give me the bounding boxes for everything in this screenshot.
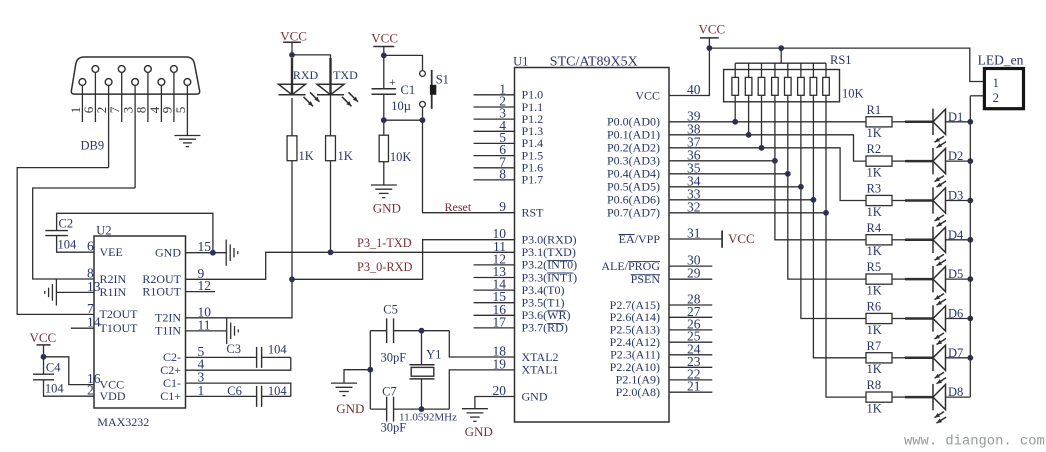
U1 pin 2 (P1.1) <box>474 94 544 114</box>
U2 pin 8 (R2IN) <box>87 266 127 286</box>
U1 pin 29 (PSEN) <box>631 266 713 286</box>
svg-text:GND: GND <box>336 401 364 416</box>
svg-text:6: 6 <box>81 106 96 113</box>
svg-text:C1-: C1- <box>163 376 181 390</box>
junction RS1/P0.4 <box>785 171 791 177</box>
svg-text:P0.0(AD0): P0.0(AD0) <box>607 115 660 129</box>
U1 pin 22 (P2.1(A9)) <box>616 366 713 386</box>
junction VCC rail at RS1 <box>778 45 784 51</box>
U1 pin 1 (P1.0) <box>474 81 544 101</box>
svg-text:17: 17 <box>493 314 507 329</box>
wire D2 to rail <box>946 160 971 162</box>
svg-text:P3_1-TXD: P3_1-TXD <box>357 236 412 250</box>
LED D3 <box>933 187 963 226</box>
wire R8 to D8 <box>892 396 905 398</box>
junction rail D2 <box>967 158 973 164</box>
wire net P3_0-RXD to U1 P3.0 <box>292 240 515 280</box>
svg-text:104: 104 <box>45 381 65 395</box>
wire RS1 lead 3 to P0.2 <box>761 95 763 148</box>
svg-text:PSEN: PSEN <box>631 272 661 286</box>
junction RS1/P0.3 <box>772 158 778 164</box>
svg-text:R6: R6 <box>867 300 882 314</box>
svg-text:P0.7(AD7): P0.7(AD7) <box>607 206 660 220</box>
wire R5 to D5 <box>892 278 905 280</box>
wire crystal left leg <box>369 331 371 409</box>
svg-text:31: 31 <box>687 226 701 241</box>
svg-text:1K: 1K <box>867 244 882 258</box>
switch S1 <box>384 55 449 120</box>
wire to U1 XTAL1 <box>449 370 514 409</box>
svg-text:S1: S1 <box>436 72 449 86</box>
U2 pin 15 (GND) <box>155 239 211 259</box>
svg-text:R7: R7 <box>867 339 882 353</box>
svg-text:VCC: VCC <box>280 28 307 43</box>
junction rail D4 <box>967 237 973 243</box>
wire D1 to rail <box>946 121 971 123</box>
svg-text:C6: C6 <box>227 384 242 398</box>
svg-text:C7: C7 <box>382 385 397 399</box>
junction RXD on P3_0-RXD <box>289 276 295 282</box>
svg-text:VDD: VDD <box>100 389 126 403</box>
wire R6 to D6 <box>892 318 905 320</box>
svg-text:Reset: Reset <box>445 200 472 214</box>
capacitor C2 <box>45 217 77 252</box>
svg-text:R4: R4 <box>867 221 882 235</box>
wire RS1 lead 7 to P0.6 <box>813 95 866 358</box>
U1 pin 4 (P1.3) <box>474 118 544 138</box>
power VCC at indicator LEDs <box>280 28 307 55</box>
svg-text:XTAL2: XTAL2 <box>522 350 559 364</box>
U1 pin 9 (RST) <box>499 199 544 219</box>
U2 pin 12 (R1OUT) <box>142 278 215 298</box>
U2 pin 13 (R1IN) <box>87 279 127 299</box>
wire U1 EA/VPP to VCC <box>669 230 755 247</box>
svg-text:MAX3232: MAX3232 <box>97 415 149 429</box>
U1 pin 7 (P1.6) <box>474 154 544 174</box>
wire D4 to rail <box>946 239 971 241</box>
svg-text:104: 104 <box>268 384 288 398</box>
U1 pin 20 (GND) <box>493 383 548 403</box>
DB9 pin 5 <box>173 79 191 136</box>
junction RS1/P0.0 <box>732 119 738 125</box>
svg-text:6: 6 <box>87 239 94 254</box>
DB9 pin 3 <box>121 79 139 188</box>
U1 pin 24 (P2.3(A11)) <box>610 341 712 361</box>
wire RS1 lead 6 to P0.5 <box>801 95 866 318</box>
junction rail D1 <box>967 119 973 125</box>
U1 pin 13 (P3.3(INT1)) <box>474 264 578 284</box>
LED D7 <box>933 345 963 384</box>
svg-text:Y1: Y1 <box>426 347 441 361</box>
wire R1 to D1 <box>892 121 905 123</box>
wire crystal top <box>370 330 386 332</box>
connector DB9 body <box>71 57 199 94</box>
svg-text:GND: GND <box>465 424 493 439</box>
wire U1 P0.3 to RS1 lead <box>669 160 775 162</box>
svg-text:8: 8 <box>499 166 506 181</box>
wire RS1 lead 2 to P0.1 <box>748 95 750 135</box>
U1 pin 39 (P0.0(AD0)) <box>607 108 701 128</box>
svg-text:+: + <box>389 75 396 89</box>
svg-text:C3: C3 <box>226 342 241 356</box>
U2 pin 11 (T1IN) <box>155 317 211 337</box>
U1 pin 8 (P1.7) <box>474 166 544 186</box>
wire Reset to U1 RST <box>423 120 515 213</box>
svg-text:1K: 1K <box>867 205 882 219</box>
wire C2 top to U2 GND pin 15 <box>57 213 213 252</box>
svg-text:10µ: 10µ <box>391 99 411 113</box>
svg-text:VCC: VCC <box>30 330 57 345</box>
wire RS1 lead 1 to P0.0 <box>734 95 736 122</box>
resistor R-TXD 1K <box>326 136 353 163</box>
wire C2 bottom to U2 VEE <box>57 236 94 253</box>
svg-text:29: 29 <box>687 266 701 281</box>
svg-text:GND: GND <box>522 389 548 403</box>
wire U1 VCC pin 40 riser <box>669 48 709 95</box>
LED D1 <box>933 109 963 148</box>
resistor R6 1K <box>866 300 892 337</box>
junction crystal bottom <box>419 406 425 412</box>
ground at U2 T1IN <box>186 318 239 344</box>
U1 pin 5 (P1.4) <box>474 130 544 150</box>
wire R3 to D3 <box>892 200 905 202</box>
wire U1 P0.2 to R3 <box>669 148 866 201</box>
junction rail D6 <box>967 316 973 322</box>
resistor R-reset 10K <box>379 120 411 164</box>
svg-text:1K: 1K <box>867 284 882 298</box>
wire D5 to rail <box>946 278 971 280</box>
DB9 pin 2 <box>94 79 112 168</box>
junction C1 bottom <box>381 117 387 123</box>
svg-text:9: 9 <box>159 107 174 114</box>
U2 pin 16 (VCC) <box>87 371 124 391</box>
svg-text:1K: 1K <box>867 126 882 140</box>
U1 pin 32 (P0.7(AD7)) <box>607 199 701 219</box>
svg-text:R2: R2 <box>867 142 882 156</box>
svg-text:1: 1 <box>198 383 205 398</box>
junction rail D7 <box>967 355 973 361</box>
power VCC top right <box>699 21 726 48</box>
svg-text:www. diangon. com: www. diangon. com <box>904 434 1045 450</box>
capacitor C3 104 <box>186 342 291 368</box>
U1 pin 33 (P0.6(AD6)) <box>607 186 701 206</box>
U1 pin 26 (P2.5(A13)) <box>610 316 713 336</box>
resistor R2 1K <box>866 142 892 179</box>
wire C6 to U2 C1- <box>186 383 291 396</box>
svg-text:9: 9 <box>499 199 506 214</box>
LED TXD <box>317 58 358 106</box>
wire U1 P0.4 to RS1 lead <box>669 173 788 175</box>
svg-text:R1IN: R1IN <box>100 285 127 299</box>
svg-text:1K: 1K <box>867 362 882 376</box>
U1 pin 11 (P3.1(TXD)) <box>493 239 576 259</box>
svg-text:7: 7 <box>87 301 94 316</box>
U1 pin 27 (P2.6(A14)) <box>610 304 713 324</box>
svg-text:R8: R8 <box>867 378 882 392</box>
U2 pin 7 (T2OUT) <box>87 301 138 321</box>
svg-text:1K: 1K <box>867 166 882 180</box>
wire VCC to TXD LED <box>292 55 331 84</box>
junction crystal top <box>419 328 425 334</box>
svg-text:DB9: DB9 <box>81 139 105 153</box>
IC U1 STC/AT89X5X body <box>515 68 670 423</box>
capacitor C1 10u <box>372 55 416 120</box>
U1 pin 28 (P2.7(A15)) <box>610 292 713 312</box>
svg-text:C2: C2 <box>59 217 74 231</box>
svg-text:30pF: 30pF <box>381 420 407 434</box>
resistor R8 1K <box>866 378 892 415</box>
ground at DB9 pin 5 <box>174 136 200 147</box>
svg-text:1: 1 <box>993 75 1000 90</box>
wire D8 to rail <box>946 396 971 398</box>
junction RS1/P0.6 <box>811 197 817 203</box>
wire DB9 pin 2 to U2 T2OUT <box>17 168 108 315</box>
junction VCC rail left <box>707 45 713 51</box>
svg-text:P3.7(RD): P3.7(RD) <box>522 321 568 335</box>
LED D8 <box>933 384 963 423</box>
junction RS1/P0.7 <box>823 210 829 216</box>
wire rail to LED_en pin 2 <box>970 95 984 97</box>
junction VCC LEDs <box>289 52 295 58</box>
svg-text:VCC: VCC <box>728 231 755 246</box>
svg-text:VEE: VEE <box>100 245 123 259</box>
junction VCC/C4 <box>41 354 47 360</box>
svg-text:T1IN: T1IN <box>155 324 181 338</box>
svg-text:ALE/PROG: ALE/PROG <box>601 259 660 273</box>
wire RS1 lead 8 to P0.7 <box>826 95 866 397</box>
wire C3 to U2 C2+ <box>186 357 291 370</box>
capacitor C5 30pF <box>381 302 407 364</box>
svg-text:19: 19 <box>493 356 507 371</box>
wire U1 P0.7 to RS1 lead <box>669 212 826 214</box>
connector LED_en <box>978 52 1024 108</box>
svg-text:11.0592MHz: 11.0592MHz <box>399 411 457 423</box>
LED D5 <box>933 266 963 305</box>
wire TXD resistor to run A <box>330 161 332 253</box>
U1 pin 6 (P1.5) <box>474 142 544 162</box>
ground at U2 R1IN <box>45 279 94 305</box>
svg-text:TXD: TXD <box>333 68 358 82</box>
svg-text:R5: R5 <box>867 260 882 274</box>
ground at U2 GND pin 15 <box>186 240 238 266</box>
U1 pin 17 (P3.7(RD)) <box>474 314 568 334</box>
wire D3 to rail <box>946 200 971 202</box>
svg-text:P3_0-RXD: P3_0-RXD <box>357 260 412 274</box>
wire RS1 lead 5 to P0.4 <box>788 95 866 279</box>
resistor R3 1K <box>866 182 892 219</box>
svg-text:C1+: C1+ <box>160 389 181 403</box>
wire D7 to rail <box>946 357 971 359</box>
DB9 pin 1 <box>68 79 86 122</box>
wire T2IN riser to net P3_0-RXD <box>186 161 293 318</box>
junction crystal left <box>367 367 373 373</box>
svg-text:21: 21 <box>687 379 701 394</box>
U2 pin 14 (T1OUT) <box>71 315 138 335</box>
U1 pin 3 (P1.2) <box>474 106 544 126</box>
U1 pin 36 (P0.3(AD3)) <box>607 147 701 167</box>
svg-text:1K: 1K <box>867 402 882 416</box>
LED RXD <box>279 58 320 106</box>
junction RS1/P0.2 <box>759 145 765 151</box>
svg-text:30pF: 30pF <box>381 351 407 365</box>
DB9 pin 9 <box>159 66 177 122</box>
wire D6 to rail <box>946 318 971 320</box>
resistor R7 1K <box>866 339 892 376</box>
wire to U1 XTAL2 <box>449 331 514 357</box>
wire R7 to D7 <box>892 357 905 359</box>
svg-text:T2OUT: T2OUT <box>100 307 139 321</box>
svg-text:R1OUT: R1OUT <box>142 284 181 298</box>
DB9 pin 6 <box>81 66 99 122</box>
U1 pin 30 (ALE/PROG) <box>601 253 712 273</box>
U1 pin 40 (VCC) <box>635 82 700 102</box>
power VCC at U2 <box>30 330 57 357</box>
svg-text:P0.2(AD2): P0.2(AD2) <box>607 141 660 155</box>
svg-text:10K: 10K <box>842 87 864 101</box>
wire U1 P0.5 to RS1 lead <box>669 186 801 188</box>
resistor R-RXD 1K <box>287 136 314 163</box>
svg-text:T2IN: T2IN <box>155 311 181 325</box>
svg-text:1K: 1K <box>867 323 882 337</box>
DB9 pin 7 <box>107 66 125 122</box>
wire DB9 pin 3 to U2 R2IN <box>33 188 135 279</box>
U2 pin 5 (C2-) <box>163 344 205 364</box>
wire R4 to D4 <box>892 239 905 241</box>
wire U1 P0.0 to R1 <box>669 121 866 123</box>
svg-text:RXD: RXD <box>293 68 319 82</box>
U1 pin 18 (XTAL2) <box>493 344 559 364</box>
svg-text:U1: U1 <box>513 55 528 69</box>
wire VCC to U2 VCC pin 16 <box>44 357 95 385</box>
U1 pin 19 (XTAL1) <box>493 356 559 376</box>
U1 pin 31 (EA/VPP) <box>619 226 701 246</box>
svg-text:GND: GND <box>373 200 401 215</box>
svg-text:11: 11 <box>198 317 211 332</box>
svg-text:VCC: VCC <box>635 88 660 102</box>
svg-text:32: 32 <box>687 199 701 214</box>
capacitor C6 104 <box>186 384 291 407</box>
svg-text:15: 15 <box>198 239 212 254</box>
junction RS1/P0.1 <box>746 132 752 138</box>
svg-text:P0.6(AD6): P0.6(AD6) <box>607 193 660 207</box>
svg-text:104: 104 <box>58 237 78 251</box>
svg-text:C4: C4 <box>46 360 61 374</box>
wire R2 to D2 <box>892 160 905 162</box>
junction TXD LED on P3_1-TXD <box>328 249 334 255</box>
svg-text:P0.5(AD5): P0.5(AD5) <box>607 180 660 194</box>
svg-text:RS1: RS1 <box>830 53 852 67</box>
resistor R4 1K <box>866 221 892 258</box>
U2 pin 10 (T2IN) <box>155 304 211 324</box>
svg-text:104: 104 <box>268 343 288 357</box>
junction RS1/P0.5 <box>798 184 804 190</box>
svg-text:P2.0(A8): P2.0(A8) <box>616 385 660 399</box>
capacitor C4 <box>33 357 64 396</box>
svg-text:C5: C5 <box>383 302 398 316</box>
ground at U1 GND pin 20 <box>462 397 515 440</box>
U1 pin 23 (P2.2(A10)) <box>610 354 713 374</box>
LED D2 <box>933 148 963 187</box>
U1 pin 35 (P0.4(AD4)) <box>607 160 701 180</box>
U1 pin 21 (P2.0(A8)) <box>616 379 713 399</box>
wire VCC rail to LED_en pin 1 <box>709 48 984 81</box>
wire C1 to S1 bottom <box>384 119 423 121</box>
junction U2 pin 15 <box>210 250 216 256</box>
power VCC at C1 <box>371 31 398 56</box>
svg-text:5: 5 <box>173 107 188 114</box>
wire LED common rail <box>969 96 971 397</box>
svg-text:7: 7 <box>107 106 122 113</box>
U2 pin 3 (C1-) <box>163 370 205 390</box>
U1 pin 34 (P0.5(AD5)) <box>607 173 701 193</box>
svg-text:STC/AT89X5X: STC/AT89X5X <box>550 55 638 70</box>
svg-text:1K: 1K <box>299 149 314 163</box>
svg-text:12: 12 <box>198 278 212 293</box>
U1 pin 15 (P3.5(T1)) <box>474 289 565 309</box>
svg-text:C2+: C2+ <box>160 363 181 377</box>
wire crystal bottom <box>370 408 386 410</box>
svg-text:8: 8 <box>133 107 148 114</box>
svg-text:XTAL1: XTAL1 <box>522 363 559 377</box>
svg-text:T1OUT: T1OUT <box>100 321 139 335</box>
ground at crystal <box>331 370 370 416</box>
LED D4 <box>933 227 964 266</box>
svg-text:EA/VPP: EA/VPP <box>619 232 661 246</box>
crystal Y1 <box>399 331 457 424</box>
wire C4 to U2 VDD pin 2 <box>44 380 95 396</box>
capacitor C7 30pF <box>381 385 407 435</box>
U2 pin 6 (VEE) <box>87 239 123 259</box>
U1 pin 14 (P3.4(T0)) <box>474 277 565 297</box>
U1 pin 38 (P0.1(AD1)) <box>607 121 701 141</box>
wire U2 R2OUT to net P3_1-TXD <box>186 252 515 279</box>
svg-text:P0.3(AD3): P0.3(AD3) <box>607 154 660 168</box>
wire RS1 lead 4 to P0.3 <box>775 95 866 240</box>
DB9 pin 4 <box>147 79 165 122</box>
wire U1 P0.6 to RS1 lead <box>669 199 813 201</box>
svg-text:P0.4(AD4): P0.4(AD4) <box>607 167 660 181</box>
wire U1 P0.1 to R2 <box>669 135 866 161</box>
op-amp U2 MAX3232 body <box>94 236 186 408</box>
U1 pin 10 (P3.0(RXD)) <box>493 226 577 246</box>
U2 pin 1 (C1+) <box>160 383 204 403</box>
U1 pin 12 (P3.2(INT0)) <box>474 251 578 271</box>
svg-text:2: 2 <box>993 90 1000 105</box>
svg-text:P0.1(AD1): P0.1(AD1) <box>607 128 660 142</box>
junction rail D3 <box>967 198 973 204</box>
svg-text:U2: U2 <box>96 223 111 237</box>
svg-text:RST: RST <box>522 206 545 220</box>
junction S1 bottom <box>420 117 426 123</box>
svg-text:10K: 10K <box>390 150 412 164</box>
svg-text:LED_en: LED_en <box>978 52 1024 67</box>
resistor R1 1K <box>866 103 892 140</box>
junction rail D5 <box>967 276 973 282</box>
svg-text:1K: 1K <box>338 149 353 163</box>
ground at reset resistor <box>371 162 401 216</box>
U2 pin 9 (R2OUT) <box>142 266 204 286</box>
svg-text:R2IN: R2IN <box>100 272 127 286</box>
resistor network RS1 10K <box>724 48 864 102</box>
svg-text:C1: C1 <box>401 83 416 97</box>
svg-text:P1.7: P1.7 <box>522 173 544 187</box>
svg-text:40: 40 <box>687 82 701 97</box>
svg-text:VCC: VCC <box>699 21 726 36</box>
LED D6 <box>933 305 963 344</box>
U2 pin 2 (VDD) <box>87 383 126 403</box>
svg-text:R3: R3 <box>867 182 882 196</box>
svg-text:VCC: VCC <box>371 31 398 46</box>
